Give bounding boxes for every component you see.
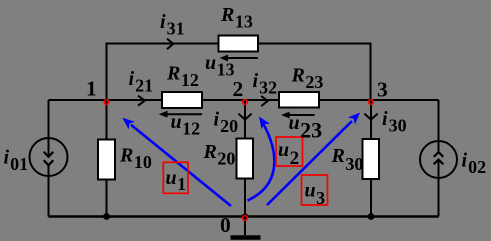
svg-text:0: 0 — [220, 213, 231, 237]
svg-text:3: 3 — [377, 78, 388, 102]
svg-text:1: 1 — [86, 77, 97, 101]
svg-text:2: 2 — [233, 77, 244, 101]
